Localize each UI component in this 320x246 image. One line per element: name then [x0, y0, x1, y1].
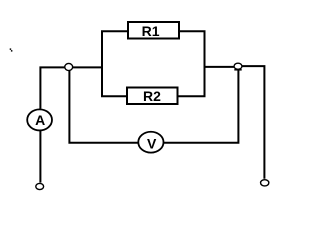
wire node B to right terminal — [238, 66, 264, 179]
wire right rail to node B — [205, 66, 239, 68]
left terminal — [36, 183, 44, 189]
wire right rail loop from R1 and R2 — [178, 31, 205, 96]
svg-text:A: A — [35, 112, 45, 128]
wire ammeter to left terminal — [39, 131, 41, 183]
svg-text:V: V — [147, 135, 157, 151]
svg-text:R2: R2 — [143, 88, 161, 104]
svg-text:R1: R1 — [142, 23, 160, 39]
resistor R2 — [127, 88, 178, 105]
node A junction — [65, 63, 73, 70]
stray mark — [10, 48, 13, 51]
wire left rail loop to R1 and R2 — [102, 31, 128, 96]
right terminal — [261, 180, 269, 186]
voltmeter V — [138, 132, 163, 153]
wire node A down to voltmeter — [69, 67, 138, 143]
wire node A row to ammeter branch — [40, 67, 102, 108]
resistor R1 — [128, 22, 179, 39]
wire voltmeter to node B branch — [164, 69, 239, 143]
ammeter A — [27, 109, 52, 130]
node B junction — [234, 63, 242, 70]
